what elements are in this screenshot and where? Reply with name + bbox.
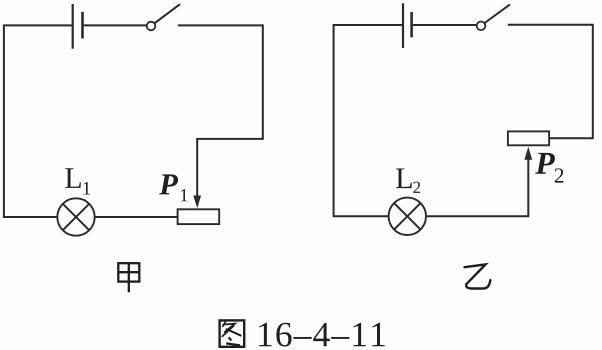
wire: lamp L1 to bottom-left corner and 甲 left-side vertical bbox=[4, 25, 57, 218]
wire: circuit 乙 top-left horizontal (left corner to battery) bbox=[333, 24, 402, 26]
wire: battery B1 to switch S1 bbox=[84, 24, 147, 26]
rheostat wiper arrow P2 (points up onto R2) bbox=[524, 147, 532, 217]
switch S2 (open knife switch) bbox=[477, 4, 510, 30]
caption text 16-4-11 bbox=[259, 323, 385, 347]
label P1 bbox=[159, 174, 187, 201]
wire: lamp L2 to bottom-left corner and 乙 left-side vertical bbox=[334, 24, 389, 216]
lamp L1 (circle with X) bbox=[57, 198, 94, 235]
rheostat R1 body bbox=[178, 209, 220, 224]
label 甲 (drawn glyph) bbox=[118, 263, 139, 292]
label L2 bbox=[396, 168, 420, 192]
rheostat wiper arrow P1 (points down onto R1) bbox=[193, 139, 201, 208]
wire: switch S2 to rheostat R2 right terminal (top run, right side vertical, corner to box) bbox=[508, 25, 593, 139]
lamp L2 (circle with X) bbox=[389, 198, 426, 235]
wire: circuit 甲 top-left horizontal (left corner to battery) bbox=[3, 24, 72, 26]
battery B1 bbox=[73, 4, 83, 49]
wire: rheostat R1 to lamp L1 bbox=[95, 216, 178, 218]
label 图 (caption figure character, drawn glyph) bbox=[220, 320, 245, 346]
wire: switch S1 to rheostat wiper (top run, right side vertical, corner to wiper) bbox=[178, 25, 263, 138]
rheostat R2 body bbox=[508, 131, 549, 145]
battery B2 bbox=[403, 3, 412, 48]
label P2 bbox=[535, 153, 563, 183]
label L1 bbox=[65, 168, 90, 194]
wire: battery B2 to switch S2 bbox=[413, 24, 477, 26]
switch S1 (open knife switch) bbox=[147, 4, 180, 30]
wire: lamp L2 to rheostat wiper bottom bbox=[426, 215, 529, 217]
label 乙 (drawn glyph) bbox=[465, 264, 491, 288]
